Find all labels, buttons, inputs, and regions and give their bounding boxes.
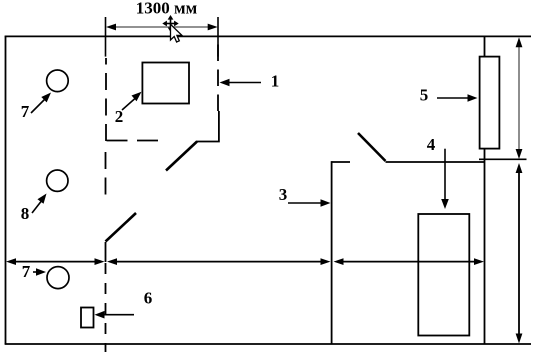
dashed partition lower segment: [105, 263, 107, 352]
door jamb solid corner (closet 1 bottom-right): [196, 111, 219, 142]
door leaf of room 3: [358, 133, 386, 161]
leader arrow label 4 (down to rect 4): [444, 149, 446, 203]
dimension top extension line left: [105, 17, 107, 57]
svg-text:1: 1: [271, 72, 280, 91]
dimension right upper shaft (gray): [518, 41, 520, 155]
dimension bottom arrowhead C-right: [474, 258, 484, 265]
dimension right upper arrowhead top: [516, 37, 523, 47]
wall bottom outer (extends right as extension line): [5, 343, 531, 345]
leader arrow label 7 lower: [33, 271, 40, 273]
cursor move-cross icon: [162, 15, 178, 32]
dimension right lower arrowhead bottom: [516, 334, 523, 344]
equipment rect 6 (small): [81, 308, 94, 328]
svg-text:8: 8: [21, 204, 30, 223]
dimension bottom arrowhead A-left: [6, 258, 16, 265]
leader arrow label 2: [122, 99, 135, 111]
dimension right mid extension line: [479, 158, 527, 160]
leader arrow label 5: [437, 97, 471, 99]
leader arrow label 7 upper: [31, 99, 45, 113]
equipment rect 5 (tall narrow): [480, 57, 500, 149]
dimension bottom arrowhead C-left: [334, 258, 344, 265]
wall top outer (extends right as extension line): [5, 35, 531, 37]
svg-text:6: 6: [144, 289, 153, 308]
dimension right upper arrowhead bottom: [516, 149, 523, 159]
dimension bottom shaft segment C: [337, 261, 481, 263]
dimension bottom arrowhead A-right: [95, 258, 105, 265]
dimension top arrowhead right: [208, 24, 218, 31]
leader arrow label 6: [101, 314, 134, 316]
wall inner horizontal right (room 3 top): [386, 161, 485, 163]
dimension bottom shaft segment B: [110, 261, 327, 263]
svg-text:5: 5: [420, 86, 429, 105]
dimension right lower shaft: [518, 166, 520, 340]
svg-text:4: 4: [427, 135, 436, 154]
leader arrow label 3: [288, 202, 324, 204]
svg-text:1300 мм: 1300 мм: [136, 0, 198, 18]
wall inner vertical (room 3 left): [331, 161, 333, 344]
dimension top arrowhead left: [106, 24, 116, 31]
circle 7 upper: [47, 70, 69, 92]
svg-text:7: 7: [21, 102, 30, 121]
door jamb solid (lower-left doorway to dimension line): [105, 242, 107, 262]
dashed partition left vertical (closet 1 left): [105, 58, 107, 141]
circle 8: [47, 170, 68, 191]
dimension top extension line right: [217, 17, 219, 57]
dashed partition right vertical (closet 1 right): [217, 38, 219, 112]
leader arrow label 1: [226, 82, 261, 84]
dimension bottom shaft segment A: [9, 261, 101, 263]
dimension bottom arrowhead B-left: [107, 258, 117, 265]
door leaf lower-left doorway: [106, 213, 137, 242]
dashed partition mid segment (below closet): [105, 152, 107, 199]
svg-text:7: 7: [22, 262, 31, 281]
door leaf of closet 1: [166, 142, 197, 171]
dashed partition bottom (closet 1 bottom): [107, 140, 159, 142]
circle 7 lower: [47, 267, 69, 289]
leader arrow label 8: [32, 202, 41, 214]
cursor pointer arrow icon: [171, 24, 182, 42]
svg-text:3: 3: [279, 185, 288, 204]
wall inner horizontal left stub (room 3 top): [332, 161, 350, 163]
equipment rect 4: [418, 214, 469, 336]
wall left outer: [5, 36, 7, 344]
dimension bottom arrowhead B-right: [321, 258, 331, 265]
dimension top shaft (gray): [110, 26, 214, 28]
equipment square 2: [142, 63, 189, 104]
dimension right lower arrowhead top: [516, 163, 523, 173]
wall right outer: [484, 36, 486, 344]
